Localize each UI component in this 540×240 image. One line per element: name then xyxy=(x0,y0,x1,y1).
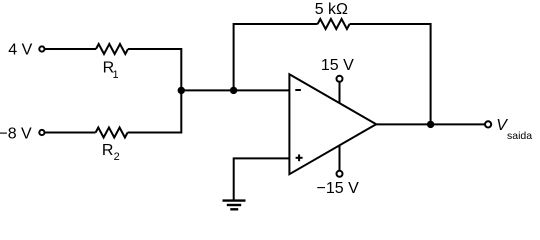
svg-text:R: R xyxy=(102,142,114,159)
svg-text:15 V: 15 V xyxy=(321,57,354,74)
svg-text:2: 2 xyxy=(114,151,120,163)
svg-text:−8 V: −8 V xyxy=(0,125,32,142)
svg-text:4 V: 4 V xyxy=(8,42,32,59)
svg-text:5 kΩ: 5 kΩ xyxy=(315,1,348,18)
svg-text:1: 1 xyxy=(113,69,119,81)
svg-text:saida: saida xyxy=(507,130,532,142)
svg-text:−15 V: −15 V xyxy=(317,180,360,197)
